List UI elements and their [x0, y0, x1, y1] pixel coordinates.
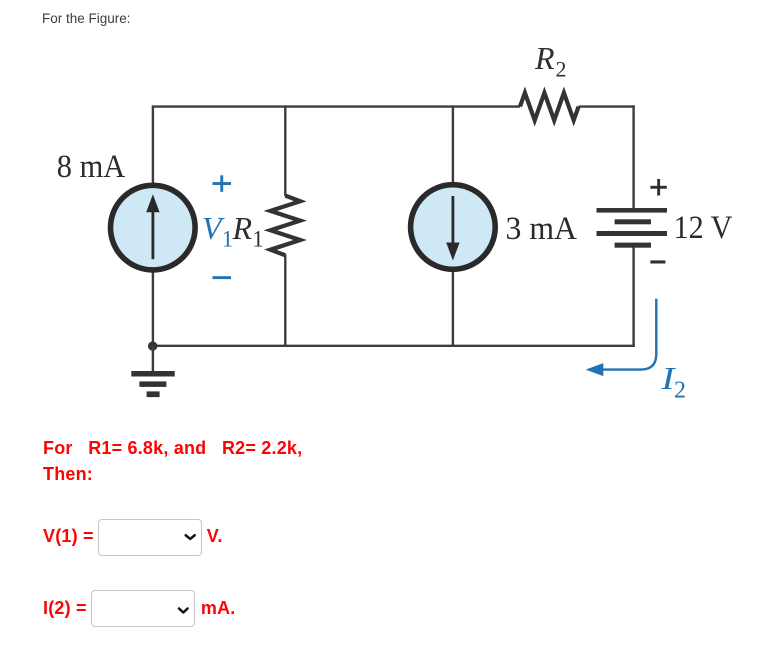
current source I1 (8 mA, arrow up)	[111, 185, 196, 270]
svg-text:R: R	[232, 210, 253, 246]
wire: top left horizontal	[153, 105, 520, 107]
label R1	[232, 210, 264, 251]
label minus V1	[213, 276, 232, 279]
question I(2) label	[43, 598, 87, 618]
unit mA.	[201, 598, 236, 618]
current source I3 (3 mA, arrow down)	[411, 185, 496, 270]
dropdown chevron I(2)	[176, 604, 191, 616]
svg-text:8 mA: 8 mA	[57, 149, 126, 185]
unit V.	[207, 526, 223, 546]
wire: left branch lower	[152, 271, 154, 347]
label minus battery	[650, 260, 665, 263]
dropdown select I(2)	[91, 590, 195, 627]
svg-text:1: 1	[222, 226, 234, 251]
question V(1) label	[43, 526, 94, 546]
ground	[131, 346, 174, 397]
label I2	[660, 360, 686, 403]
wire: R1 branch upper	[284, 105, 286, 196]
heading text	[42, 11, 131, 26]
svg-text:R: R	[534, 40, 555, 76]
svg-text:1: 1	[252, 226, 263, 251]
wire: middle branch lower	[452, 270, 454, 347]
label plus V1	[213, 175, 232, 192]
red condition text	[43, 435, 302, 487]
wire: R1 branch lower	[284, 255, 286, 347]
resistor R2 (horizontal zigzag)	[520, 93, 579, 121]
dropdown select V(1)	[98, 519, 202, 556]
resistor R1 (vertical zigzag)	[270, 196, 300, 256]
wire: right branch lower	[632, 246, 634, 347]
label V1	[202, 210, 233, 251]
dropdown chevron V(1)	[183, 531, 198, 543]
battery 12V	[597, 208, 668, 248]
label plus battery	[650, 179, 666, 196]
svg-text:2: 2	[674, 377, 686, 403]
wire: right branch upper	[632, 105, 634, 209]
wire: middle branch upper	[452, 105, 454, 184]
svg-text:3 mA: 3 mA	[506, 211, 578, 247]
wire: left branch upper	[152, 105, 154, 184]
wire: bottom horizontal	[153, 345, 635, 347]
svg-text:2: 2	[556, 57, 567, 82]
svg-text:12 V: 12 V	[674, 210, 733, 246]
node junction dot	[148, 341, 157, 350]
wire: top right horizontal	[579, 105, 635, 107]
current arrow I2	[586, 299, 657, 376]
label R2	[534, 40, 567, 82]
